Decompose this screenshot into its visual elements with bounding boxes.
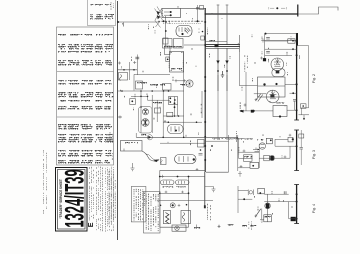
note: table text rows group 2	[58, 81, 111, 84]
node HT junctions	[204, 21, 206, 23]
capacitor Fig4 plates	[284, 191, 286, 194]
wire table separator 2	[57, 116, 114, 118]
wire supply top rail y176	[160, 176, 205, 178]
wire table separator 1	[57, 71, 114, 73]
valve Fig2 V1 lower envelope	[272, 69, 285, 77]
component speaker box	[244, 155, 253, 162]
capacitor Fig2 plates on input column	[266, 38, 270, 53]
wire verticals x152 x157 x163	[151, 95, 153, 133]
wire Fig3 y146	[275, 145, 297, 147]
transformer T1 primary vertical 1	[217, 5, 219, 45]
note: table text rows group 3	[58, 125, 112, 129]
capacitor C7 plus mark	[118, 62, 121, 65]
transformer T1 label ticks	[210, 40, 216, 42]
wire supply mid rail y193	[160, 192, 189, 194]
component arrow wiper	[154, 159, 159, 162]
wire output transformer box	[206, 171, 229, 173]
valve V4 envelope rounded	[168, 125, 184, 134]
node heavy stub at X298 top	[297, 5, 299, 17]
note scattered component value labels	[148, 24, 150, 29]
component Fig3 bottom box	[250, 162, 259, 168]
component Fig4 box x258	[258, 188, 265, 194]
wire HT heavy vertical rail	[204, 8, 206, 172]
note label right of V4	[200, 104, 202, 113]
switch Fig4 lever	[255, 209, 260, 217]
note: margin imprint block	[108, 171, 110, 224]
wire corner x239 to Fig2 box	[238, 44, 240, 86]
wire Fig4 y194 rail	[264, 193, 288, 195]
component box left of V2	[163, 84, 172, 91]
note: main component tables box	[57, 27, 114, 165]
component Fig2 right box	[301, 104, 307, 109]
ground symbol right of supply	[205, 186, 214, 188]
capacitor C1 tuning gang vanes	[155, 7, 164, 21]
resistor R4 box	[136, 81, 143, 89]
svg-text:1324/IT39: 1324/IT39	[60, 169, 89, 227]
coil L1 winding leads with dots	[164, 11, 171, 13]
wire supply bottom rail	[160, 226, 189, 228]
wire Fig3 chassis heavy rail	[296, 130, 298, 171]
wire Fig2 input lead	[245, 72, 247, 111]
component Fig3 right small box	[299, 134, 304, 138]
component marks near Fig2 bottom left	[244, 104, 247, 107]
valve V3 lower electrode circle	[142, 119, 150, 127]
component aerial trimmer marker	[270, 7, 285, 9]
wire y158 to speaker	[239, 157, 253, 159]
node Fig4 rail dots	[296, 193, 298, 195]
coil hatch above arrow	[239, 102, 241, 108]
transformer T1 winding bars	[205, 44, 240, 46]
wire Fig2 y41	[265, 40, 288, 42]
node Fig4 dot left	[243, 198, 245, 200]
valve V5 output rounded envelope	[175, 155, 197, 164]
ground chassis below transformer	[221, 71, 224, 77]
coil winding marks	[164, 46, 182, 48]
wire Fig2 y115	[299, 114, 310, 116]
valve V6 heater envelope B	[176, 180, 190, 185]
capacitor Fig2 near rail	[293, 100, 296, 102]
note: caption box under schematic	[131, 187, 146, 222]
ground below squiggle	[131, 163, 135, 171]
wire grid line y81	[175, 80, 187, 82]
node junction on aerial rail	[165, 21, 167, 23]
wire left border rail of Fig 1	[117, 1, 119, 240]
note: intro paragraph rotated lines	[89, 167, 91, 220]
wire Fig4 x288 vertical	[288, 202, 290, 219]
component Fig3 dark blobs	[270, 156, 274, 161]
wire Fig2 bottom rail right part	[287, 109, 297, 111]
component Fig3 box y158	[264, 155, 270, 161]
note Fig2 labels around valves	[268, 59, 270, 62]
wire supply rail y200	[157, 200, 213, 202]
wire squiggle leads to volume control	[142, 151, 159, 161]
note Fig2 input label	[244, 55, 246, 72]
component Fig4 dark can	[291, 217, 296, 221]
lamp LP1 box with cross circle	[172, 225, 186, 231]
resistor R21 box	[181, 211, 191, 224]
wire Fig3 y139	[275, 138, 288, 140]
wire y100 link	[148, 99, 171, 101]
valve V2 circle	[186, 80, 193, 87]
resistor R8 box	[167, 112, 173, 117]
wire Fig2 top rail	[265, 33, 296, 35]
wire dashed grid line	[158, 20, 204, 22]
node Fig2 rail dots	[296, 40, 298, 42]
wire vertical x141	[140, 91, 142, 133]
wire Fig2 stubs to rail	[296, 83, 298, 85]
wire Fig2 anode stub	[285, 83, 297, 85]
node dots on y91	[121, 90, 123, 92]
note: far-left margin imprint text	[43, 150, 45, 214]
svg-text:E: E	[86, 222, 95, 227]
wire Fig2 line y93.8	[254, 93, 266, 95]
component Fig4 jack	[249, 191, 252, 194]
transformer T1 core blob	[215, 44, 219, 47]
note: Fig 1 caption marks	[243, 225, 247, 227]
transformer IFT1 box	[170, 52, 184, 73]
wire Fig3 x275	[274, 139, 276, 146]
node Fig2 junction blob	[263, 58, 266, 61]
wire Fig2 right branch	[297, 46, 309, 115]
capacitor C8 plates	[136, 55, 138, 76]
wire speaker link corner	[238, 139, 240, 159]
node anode dot of V5	[193, 158, 195, 160]
node junction column at V1	[165, 16, 167, 46]
wire supply left vertical	[159, 170, 161, 227]
note: caption box under schematic	[144, 192, 161, 234]
component Fig3 right cap	[300, 148, 303, 150]
rectifier MR2 diode on leg 2	[226, 49, 228, 92]
valve Fig2 V1 circle	[271, 58, 284, 71]
resistor R2 box	[119, 73, 128, 81]
resistor R20 box	[163, 211, 170, 224]
transformer T1 primary vertical 2	[226, 5, 228, 45]
switch S1 tick	[123, 23, 125, 27]
coil can box A	[163, 39, 173, 49]
coil IFT1 windings	[168, 57, 170, 69]
wire vertical x129	[129, 62, 131, 80]
switch Fig2 lever diagonals	[255, 93, 262, 101]
wire Fig2 left vertical x264	[264, 34, 266, 60]
capacitor C2 lower diagonal	[155, 21, 161, 28]
wire Fig3 y152	[238, 151, 259, 153]
wire Fig3 left lead	[237, 135, 239, 171]
component mains link marks	[218, 225, 221, 228]
note: TRADER SERVICE SHEET title box outer frame	[56, 168, 88, 232]
svg-text:Fig. 3: Fig. 3	[312, 150, 316, 159]
wire Fig3 x290 link	[289, 146, 291, 158]
note: table text rows group 1	[58, 34, 112, 36]
capacitor Fig4 electrolytic blobs	[266, 203, 270, 208]
valve V1 electrodes	[179, 27, 185, 32]
wire Fig2 y55	[265, 54, 292, 56]
component screened box	[121, 141, 143, 152]
node supply junction dots	[159, 176, 161, 178]
wire bus y91	[118, 90, 185, 92]
component marks under heaters	[163, 186, 173, 188]
wire secondary legs down	[217, 75, 219, 140]
component Fig4 bottom box	[264, 215, 272, 222]
wire bus y137 long	[136, 136, 238, 138]
wire Fig4 x267 vertical	[267, 194, 269, 222]
svg-text:Fig. 4: Fig. 4	[312, 204, 316, 213]
note Fig4 caption text	[248, 222, 250, 229]
node dots y137	[162, 137, 164, 139]
svg-text:Fig. 2: Fig. 2	[312, 74, 316, 83]
wire HT heavy horizontal rail	[205, 13, 298, 15]
wire bus y143	[160, 142, 205, 144]
node secondary junctions	[217, 70, 219, 72]
wire Fig4 y190 stub	[238, 189, 248, 191]
wire bus y170	[160, 169, 206, 171]
rectifier MR1 diode on leg 1	[217, 49, 219, 92]
component box x131 y99	[130, 99, 136, 105]
component Fig3 box top	[266, 138, 272, 144]
node dots on y70	[123, 69, 125, 71]
capacitor C4	[163, 38, 168, 44]
note Fig3 marks	[257, 139, 263, 141]
wire y96 link	[131, 95, 148, 97]
valve Fig2 V2 circle	[266, 90, 279, 103]
wire Fig2 y49	[265, 48, 297, 50]
wire transformer right lead	[238, 35, 240, 52]
wire line y70 left cluster	[118, 69, 138, 71]
wire AGC box top line	[134, 73, 170, 75]
wire Fig3 y158 row	[259, 157, 290, 159]
capacitor C1 rotor arrows	[157, 11, 160, 15]
wire Fig4 x262 ground lead	[261, 209, 263, 220]
component parts right of V5	[198, 140, 205, 148]
component mains link marks	[218, 225, 221, 228]
component Fig2 big box	[258, 77, 286, 97]
wire line y40 under bracket	[265, 40, 298, 42]
component switch cluster box	[169, 97, 178, 105]
ground Fig4	[260, 220, 264, 223]
ground Fig3 left bottom	[238, 171, 242, 176]
component Fig2 bottom box on rail	[273, 106, 287, 117]
coil L1 frame aerial box	[162, 9, 181, 18]
note Fig3 input label	[236, 131, 238, 142]
wire Fig4 chassis heavy rail	[296, 185, 298, 224]
diode MR3 with circle	[147, 135, 152, 140]
note label under V2	[180, 84, 187, 86]
wire x136 stub	[135, 133, 137, 137]
valve V1 envelope rounded box	[176, 26, 192, 37]
node Fig2 dot	[292, 48, 294, 50]
wire y45 link	[184, 44, 205, 46]
note tiny text in AGC area	[137, 82, 147, 84]
wire Fig4 y201 rail	[264, 201, 296, 203]
valve V3 envelope dashed box	[139, 107, 153, 134]
node heavy stub at X298 lower	[296, 33, 298, 46]
component dark contact at y111	[240, 110, 274, 112]
component tick right of lamp	[196, 225, 198, 230]
wire grid bus y116	[163, 115, 184, 117]
wire supply right vertical	[188, 177, 190, 228]
coil can box B	[174, 39, 184, 49]
note switch contact band	[212, 138, 252, 140]
component small parts left of HT rail	[197, 5, 199, 21]
wire aerial input top rail	[118, 21, 161, 23]
wire Fig4 left lead	[237, 186, 239, 213]
note: margin text right of tables	[110, 2, 112, 10]
component box right of squiggle	[161, 158, 167, 165]
wire Fig3 x259 vertical	[258, 144, 260, 168]
coil speaker winding	[238, 147, 240, 154]
resistor Fig2 top box	[288, 39, 295, 43]
wire right corner bracket output	[298, 7, 339, 14]
potentiometer circle	[170, 203, 175, 208]
wire IFT1 secondary lead	[183, 52, 185, 138]
note: title box inner frame	[58, 170, 86, 230]
valve V3 upper electrode circle	[142, 109, 148, 115]
valve Fig3 circle	[259, 143, 265, 149]
component dark mark x168 y58	[166, 57, 170, 62]
wire verticals x174 x177	[174, 97, 176, 117]
component box at x165 y46	[165, 46, 171, 55]
note: Fig 1 caption marks	[242, 225, 246, 227]
wire bus y122	[163, 121, 202, 123]
valve V6 heater envelope A	[161, 180, 175, 185]
wire Fig4 y199	[238, 198, 252, 200]
wire Fig2 chassis heavy rail	[296, 33, 298, 120]
capacitor C12 plus	[118, 116, 123, 119]
wire top line to HT rail	[181, 7, 205, 9]
wire Fig3 bottom row	[238, 167, 250, 169]
component marks between	[153, 102, 162, 104]
component Fig3 dark dot right	[288, 137, 293, 142]
wire arrows to fig links	[253, 148, 260, 152]
note text right of supply	[207, 204, 209, 220]
note: top-right corner table box of rotated page	[88, 0, 116, 26]
note L1 labels	[186, 12, 188, 15]
node heavy rail end blob	[204, 205, 206, 208]
